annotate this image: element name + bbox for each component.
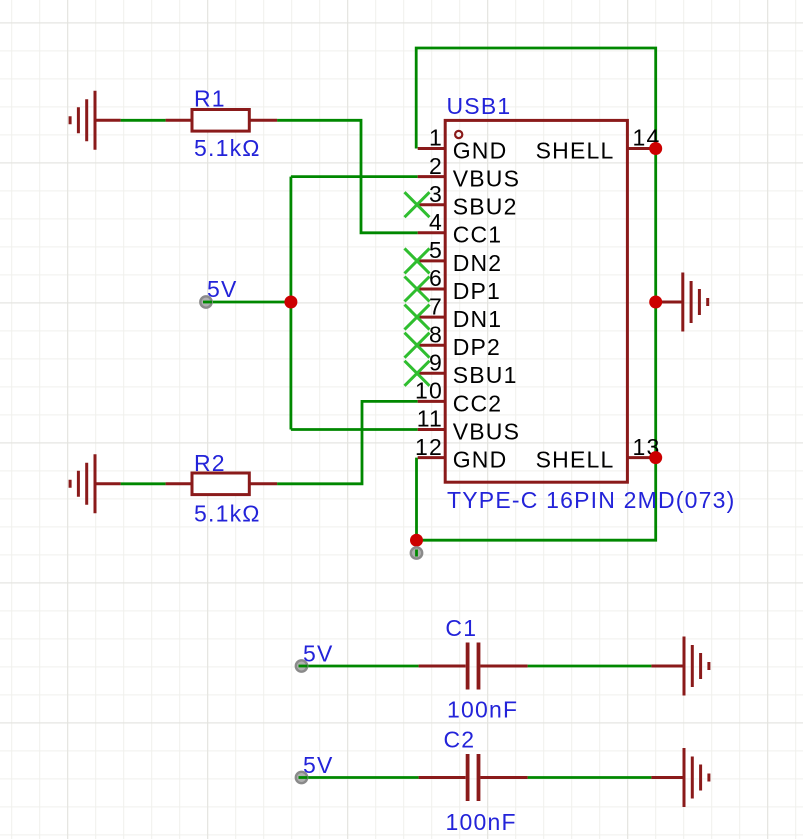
junction dot pin13 — [649, 451, 662, 464]
net label 5V (C2) — [296, 752, 334, 783]
pin names — [453, 137, 520, 472]
junction dot pin14 — [649, 142, 662, 155]
svg-text:GND: GND — [453, 447, 508, 473]
svg-text:SBU2: SBU2 — [453, 194, 518, 220]
capacitor C2 — [419, 754, 528, 801]
net label 5V (top) — [200, 276, 237, 308]
junction dot 5V — [284, 296, 297, 309]
wire C1 row — [304, 665, 651, 668]
wire net CC2: R2 to pin10 — [121, 401, 418, 483]
pin stubs right 14,13 — [627, 149, 655, 458]
no-connect X pin6 — [405, 277, 430, 302]
svg-text:5.1kΩ: 5.1kΩ — [194, 135, 261, 161]
svg-text:3: 3 — [429, 181, 443, 207]
capacitor C1 — [419, 643, 528, 690]
svg-text:DP1: DP1 — [453, 278, 501, 304]
ground (right of chip) — [656, 273, 708, 332]
no-connect X pin5 — [405, 248, 430, 273]
svg-text:9: 9 — [429, 350, 443, 376]
resistor R2 — [166, 473, 278, 495]
wire net SHELL: pin1 up-over-down right side — [416, 48, 656, 540]
svg-text:1: 1 — [429, 125, 443, 151]
svg-text:5V: 5V — [303, 752, 334, 778]
svg-text:100nF: 100nF — [446, 809, 517, 835]
svg-text:7: 7 — [429, 293, 443, 319]
svg-text:DN2: DN2 — [453, 250, 503, 276]
svg-text:5.1kΩ: 5.1kΩ — [194, 501, 261, 527]
svg-text:C1: C1 — [445, 615, 477, 641]
svg-text:DN1: DN1 — [453, 306, 503, 332]
wire net 5V: stub to junction, vertical, pin2 and pin11 branches — [208, 177, 418, 430]
svg-text:R2: R2 — [194, 450, 226, 476]
svg-text:2: 2 — [429, 153, 443, 179]
svg-text:10: 10 — [415, 378, 443, 404]
no-connect X pin9 — [405, 361, 430, 386]
wire C2 row — [304, 776, 651, 779]
svg-text:5: 5 — [429, 237, 443, 263]
net label 5V (C1) — [296, 641, 334, 672]
net stub marker (below junction, bottom) — [411, 547, 422, 558]
pin stubs left 1-12 — [418, 149, 446, 458]
junction dot shell-ground — [649, 296, 662, 309]
svg-text:VBUS: VBUS — [453, 166, 520, 192]
svg-text:CC1: CC1 — [453, 222, 503, 248]
ground (left of R2) — [70, 454, 121, 513]
svg-text:11: 11 — [417, 406, 443, 432]
svg-text:USB1: USB1 — [447, 93, 512, 119]
pin1 indicator circle — [455, 131, 462, 138]
svg-text:C2: C2 — [444, 727, 476, 753]
resistor R1 — [166, 110, 278, 132]
svg-text:100nF: 100nF — [447, 697, 518, 723]
svg-text:SBU1: SBU1 — [453, 362, 518, 388]
USB1 connector body — [445, 120, 627, 482]
junction dot bottom-left corner — [410, 534, 423, 547]
ground (right of C2) — [651, 748, 709, 807]
svg-text:4: 4 — [429, 209, 443, 235]
svg-text:5V: 5V — [207, 276, 238, 302]
svg-text:SHELL: SHELL — [536, 137, 615, 163]
no-connect X pin8 — [405, 333, 430, 358]
svg-text:12: 12 — [415, 434, 443, 460]
svg-text:TYPE-C 16PIN 2MD(073): TYPE-C 16PIN 2MD(073) — [447, 487, 736, 513]
svg-text:CC2: CC2 — [453, 390, 503, 416]
svg-text:GND: GND — [453, 137, 508, 163]
no-connect X pin3 — [405, 192, 430, 217]
svg-text:SHELL: SHELL — [536, 447, 615, 473]
svg-text:8: 8 — [429, 321, 443, 347]
ground (right of C1) — [651, 637, 709, 696]
wire net CC1: R1 to pin4 — [121, 120, 418, 233]
svg-text:DP2: DP2 — [453, 334, 501, 360]
pin numbers 1-12 — [415, 125, 443, 460]
no-connect X pin7 — [405, 305, 430, 330]
ground (left of R1) — [70, 91, 121, 150]
svg-text:6: 6 — [429, 265, 443, 291]
svg-text:VBUS: VBUS — [453, 418, 520, 444]
svg-text:5V: 5V — [303, 641, 334, 667]
svg-text:R1: R1 — [194, 86, 226, 112]
